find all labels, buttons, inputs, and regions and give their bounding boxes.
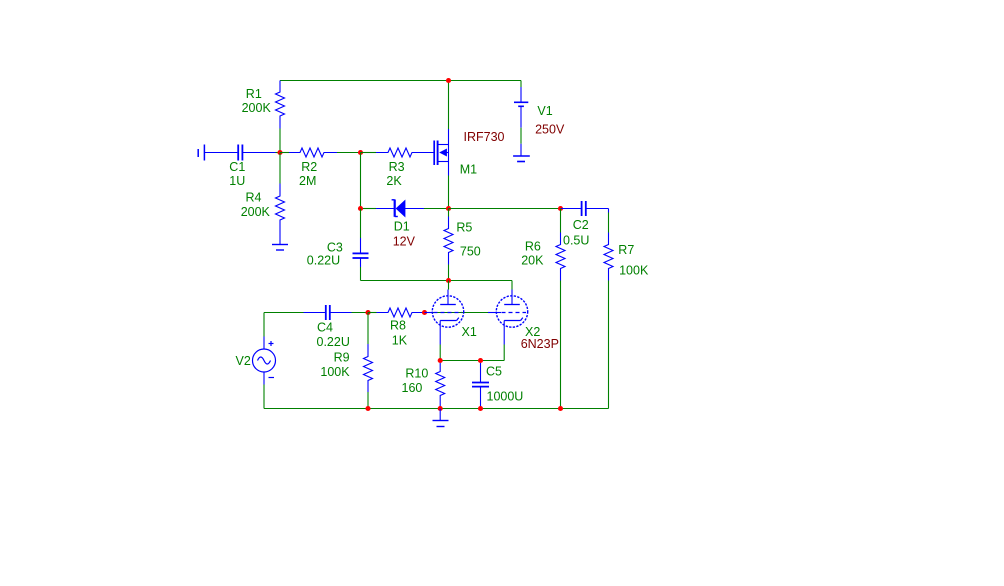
resistor R9 xyxy=(364,344,373,392)
value 2M (R2) xyxy=(299,174,316,188)
value 0.22U (C4) xyxy=(317,335,350,349)
wire mid rail to X2 anode xyxy=(511,281,513,290)
value 20K (R6) xyxy=(521,254,544,268)
wire drain to top rail xyxy=(448,81,450,130)
junction grid node xyxy=(422,310,427,315)
label C2 xyxy=(573,218,589,232)
zener diode D1 xyxy=(376,200,424,217)
label R2 xyxy=(301,160,317,174)
svg-text:250V: 250V xyxy=(535,123,565,137)
wire R5 to mid rail xyxy=(448,265,450,281)
svg-text:IRF730: IRF730 xyxy=(464,130,505,144)
label C4 xyxy=(317,320,333,334)
label C3 xyxy=(327,240,343,254)
wire R7 to bottom rail xyxy=(608,281,610,409)
triode X1 xyxy=(425,290,464,345)
wire node D to R8 xyxy=(368,312,377,314)
wire V2 bottom xyxy=(263,385,265,409)
svg-text:V1: V1 xyxy=(537,104,552,118)
junction cathode rail C5 xyxy=(478,358,483,363)
input terminal xyxy=(198,145,204,161)
wire cathode rail xyxy=(440,360,504,362)
svg-text:V2: V2 xyxy=(236,354,251,368)
junction bottom R6 xyxy=(558,406,563,411)
resistor R8 xyxy=(377,308,425,317)
wire input node to R4 xyxy=(279,153,281,184)
wire node A to R3 xyxy=(361,152,377,154)
svg-text:200K: 200K xyxy=(241,205,271,219)
resistor R6 xyxy=(556,233,565,281)
value 160 (R10) xyxy=(402,381,423,395)
svg-text:1000U: 1000U xyxy=(487,390,524,404)
label V1 xyxy=(537,104,552,118)
capacitor C2 xyxy=(561,201,609,216)
svg-text:0.22U: 0.22U xyxy=(317,335,350,349)
bottom rail xyxy=(264,408,609,410)
junction input node xyxy=(277,150,282,155)
svg-text:R9: R9 xyxy=(334,351,350,365)
junction node C xyxy=(558,206,563,211)
svg-text:C3: C3 xyxy=(327,240,343,254)
svg-text:1U: 1U xyxy=(229,174,245,188)
wire zener node to C3 xyxy=(360,209,362,239)
junction node D xyxy=(365,310,370,315)
wire C2 to R7 xyxy=(608,213,610,233)
label R10 xyxy=(405,366,428,380)
value 200K (R4) xyxy=(241,205,271,219)
label R9 xyxy=(334,351,350,365)
svg-text:R4: R4 xyxy=(246,191,262,205)
value 1U (C1) xyxy=(229,174,245,188)
label C1 xyxy=(229,160,245,174)
junction cathode rail left xyxy=(438,358,443,363)
resistor R5 xyxy=(444,217,453,265)
svg-text:6N23P: 6N23P xyxy=(521,337,559,351)
wire X1 anode xyxy=(448,281,450,290)
label R4 xyxy=(246,191,262,205)
source V2 xyxy=(253,337,276,385)
wire C3 to mid rail xyxy=(360,267,362,281)
wire C1 to input node xyxy=(276,152,281,154)
svg-text:2M: 2M xyxy=(299,174,316,188)
wire source to zener node xyxy=(448,176,450,209)
capacitor C4 xyxy=(304,305,352,320)
label IRF730 (M1 model) xyxy=(464,130,505,144)
wire X2 cathode xyxy=(503,345,505,361)
capacitor C3 xyxy=(353,238,369,267)
wire input node to R2 xyxy=(280,152,289,154)
svg-text:X1: X1 xyxy=(462,325,477,339)
wire node C to R6 xyxy=(560,209,562,233)
wire R1 bottom to input node xyxy=(279,129,281,153)
label R6 xyxy=(525,239,541,253)
svg-text:200K: 200K xyxy=(242,101,272,115)
value 100K (R9) xyxy=(320,365,350,379)
wire node D to R9 xyxy=(367,313,369,345)
value 0.22U (C3) xyxy=(307,254,340,268)
label V2 xyxy=(236,354,251,368)
svg-text:D1: D1 xyxy=(394,219,410,233)
value 6N23P (X2 model) xyxy=(521,337,559,351)
label X2 xyxy=(525,325,540,339)
svg-text:20K: 20K xyxy=(521,254,544,268)
value 2K (R3) xyxy=(386,174,402,188)
svg-text:750: 750 xyxy=(460,245,481,259)
junction node B xyxy=(446,206,451,211)
label D1 xyxy=(394,219,410,233)
value 100K (R7) xyxy=(619,263,649,277)
svg-text:0.5U: 0.5U xyxy=(563,233,589,247)
wire node B to node C xyxy=(449,208,561,210)
svg-text:160: 160 xyxy=(402,381,423,395)
junction zener node xyxy=(358,206,363,211)
wire V2 to C4 xyxy=(264,312,304,314)
junction bottom R9 xyxy=(365,406,370,411)
wire node A to D1 xyxy=(361,208,377,210)
svg-text:M1: M1 xyxy=(460,162,477,176)
battery V1 xyxy=(513,81,530,162)
value 0.5U (C2) xyxy=(563,233,589,247)
ground below R4 xyxy=(272,233,288,251)
wire X1 cathode xyxy=(439,345,441,361)
svg-text:C2: C2 xyxy=(573,218,589,232)
svg-text:R8: R8 xyxy=(390,319,406,333)
wire grid node to X2 grid xyxy=(425,312,489,314)
junction bottom C5 xyxy=(478,406,483,411)
svg-text:R2: R2 xyxy=(301,160,317,174)
svg-text:100K: 100K xyxy=(320,365,350,379)
wire R6 to bottom rail xyxy=(560,281,562,409)
junction mid rail xyxy=(446,278,451,283)
svg-text:R1: R1 xyxy=(246,87,262,101)
value 12V (D1) xyxy=(393,234,416,248)
svg-text:C4: C4 xyxy=(317,320,333,334)
mosfet M1 xyxy=(412,129,449,176)
value 200K (R1) xyxy=(242,101,272,115)
label R5 xyxy=(456,221,472,235)
label M1 xyxy=(460,162,477,176)
wire V2 top xyxy=(263,313,265,337)
junction top rail drain xyxy=(446,78,451,83)
wire node A down to zener node xyxy=(360,153,362,209)
label R3 xyxy=(389,160,405,174)
svg-text:R7: R7 xyxy=(618,243,634,257)
svg-text:1K: 1K xyxy=(392,334,408,348)
wire R2 to node A xyxy=(337,152,361,154)
svg-text:C5: C5 xyxy=(486,365,502,379)
svg-text:12V: 12V xyxy=(393,234,416,248)
svg-text:C1: C1 xyxy=(229,160,245,174)
svg-text:0.22U: 0.22U xyxy=(307,254,340,268)
svg-text:R3: R3 xyxy=(389,160,405,174)
junction node A xyxy=(358,150,363,155)
svg-text:R10: R10 xyxy=(405,366,428,380)
value 250V (V1) xyxy=(535,123,565,137)
resistor R3 xyxy=(376,148,426,157)
capacitor C5 xyxy=(472,363,489,409)
svg-text:R5: R5 xyxy=(456,221,472,235)
capacitor C1 xyxy=(204,145,275,161)
label X1 xyxy=(462,325,477,339)
value 1K (R8) xyxy=(392,334,408,348)
label R8 xyxy=(390,319,406,333)
value 1000U (C5) xyxy=(487,390,524,404)
resistor R10 xyxy=(436,363,445,409)
wire mid rail xyxy=(361,280,513,282)
label R1 xyxy=(246,87,262,101)
wire D1 to node B xyxy=(424,208,449,210)
svg-text:2K: 2K xyxy=(386,174,402,188)
resistor R1 xyxy=(276,81,285,129)
wire C4 to node D xyxy=(352,312,369,314)
svg-text:100K: 100K xyxy=(619,263,649,277)
label R7 xyxy=(618,243,634,257)
resistor R2 xyxy=(289,148,337,157)
resistor R4 xyxy=(276,184,285,233)
wire top rail xyxy=(280,80,521,82)
wire node B to R5 xyxy=(448,209,450,217)
triode X2 xyxy=(488,290,528,345)
resistor R7 xyxy=(604,233,613,281)
junction bottom R10 xyxy=(438,406,443,411)
label C5 xyxy=(486,365,502,379)
value 750 (R5) xyxy=(460,245,481,259)
wire R9 to bottom rail xyxy=(367,392,369,409)
svg-text:R6: R6 xyxy=(525,239,541,253)
ground at bottom rail xyxy=(433,409,449,427)
